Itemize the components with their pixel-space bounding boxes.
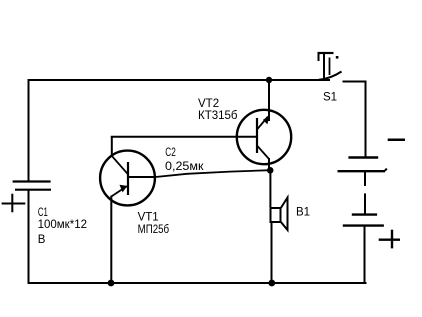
svg-text:100мк*12: 100мк*12 xyxy=(38,219,87,231)
svg-text:0,25мк: 0,25мк xyxy=(165,161,205,173)
svg-text:КТ315б: КТ315б xyxy=(198,110,238,122)
svg-text:VT2: VT2 xyxy=(198,98,219,110)
svg-text:В: В xyxy=(38,234,46,246)
svg-text:C1: C1 xyxy=(38,207,48,219)
svg-text:B1: B1 xyxy=(296,206,310,218)
svg-text:МП25б: МП25б xyxy=(138,224,170,236)
svg-text:C2: C2 xyxy=(165,147,176,159)
svg-text:S1: S1 xyxy=(323,91,337,103)
svg-text:VT1: VT1 xyxy=(138,211,159,223)
